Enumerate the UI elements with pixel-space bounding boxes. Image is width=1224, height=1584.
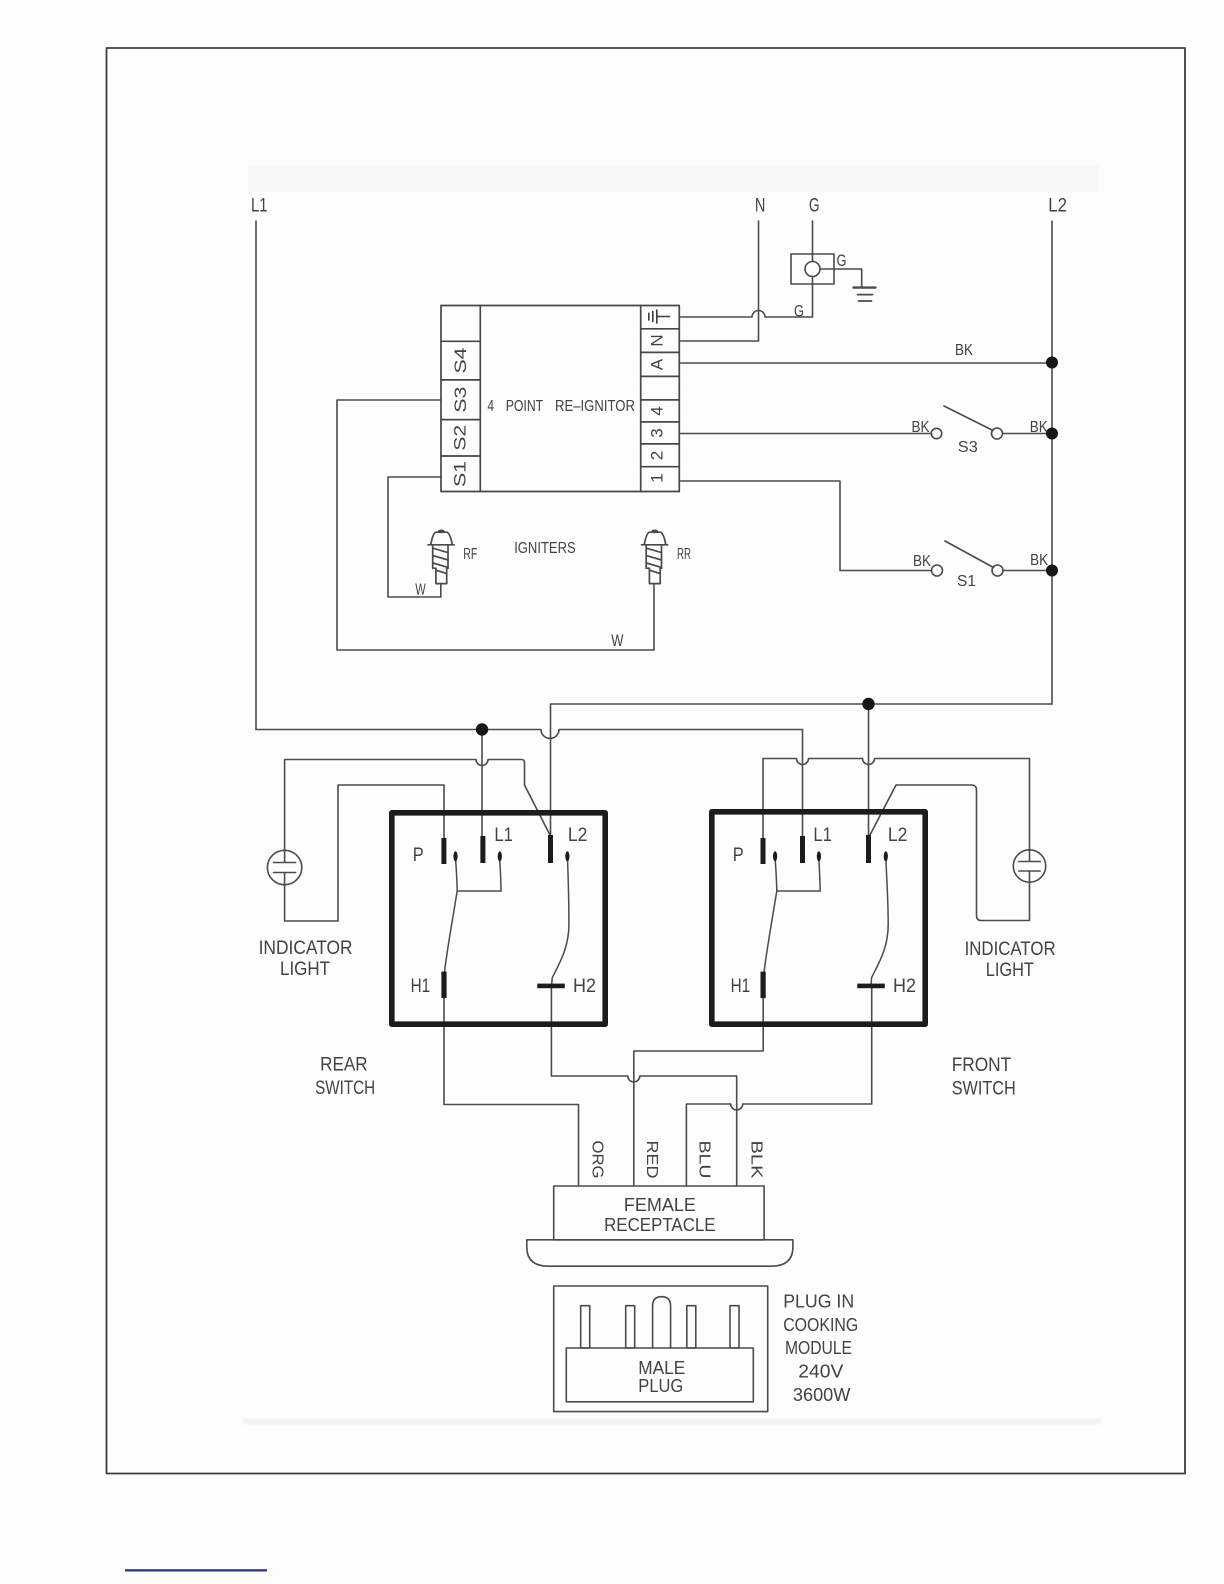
- switch S3: [931, 406, 1002, 439]
- svg-text:S1: S1: [451, 461, 470, 487]
- svg-text:4: 4: [488, 398, 495, 415]
- svg-text:POINT: POINT: [506, 398, 544, 415]
- svg-text:LIGHT: LIGHT: [986, 960, 1034, 981]
- igniter RR: [642, 530, 668, 584]
- svg-text:RECEPTACLE: RECEPTACLE: [604, 1215, 716, 1235]
- wire : re-ignitor terminal S1 to igniter RF, white wire W: [388, 477, 441, 597]
- svg-text:G: G: [809, 196, 820, 217]
- wire : front switch H2 output, hop over BLK wire, to receptacle BLU: [686, 988, 871, 1186]
- plug ground pin: [653, 1297, 671, 1348]
- svg-text:L1: L1: [813, 824, 832, 846]
- wire : re-ignitor terminal 3 to switch S3: [679, 433, 931, 435]
- svg-text:S1: S1: [957, 573, 976, 590]
- svg-text:REAR: REAR: [320, 1055, 368, 1076]
- rear terminal H2 bar: [537, 984, 565, 989]
- rear L1 contact point: [498, 851, 502, 861]
- footer link underline: [125, 1569, 267, 1571]
- svg-text:2: 2: [648, 451, 667, 460]
- svg-text:PLUG IN: PLUG IN: [783, 1292, 854, 1312]
- svg-text:H2: H2: [893, 975, 916, 997]
- pin ground symbol in terminal cell: [649, 310, 670, 323]
- svg-text:MODULE: MODULE: [785, 1338, 852, 1358]
- svg-text:P: P: [413, 844, 424, 866]
- junction dot : front L2 tap: [862, 698, 874, 710]
- wire : rear switch H1 output to receptacle ORG: [444, 998, 579, 1186]
- svg-text:L2: L2: [1048, 196, 1067, 217]
- svg-text:RE–IGNITOR: RE–IGNITOR: [555, 398, 635, 415]
- svg-text:RR: RR: [677, 546, 691, 563]
- wire : G box to earth ground: [820, 269, 862, 287]
- front L2 contact point: [884, 851, 888, 861]
- wire : left indicator light top lead, hop over rear L1 drop, to rear switch L2 terminal: [285, 760, 551, 851]
- front switch S20 : thick box: [712, 812, 925, 1024]
- svg-text:L2: L2: [888, 824, 908, 846]
- svg-text:INDICATOR: INDICATOR: [965, 939, 1056, 960]
- svg-text:BLU: BLU: [696, 1141, 713, 1179]
- re-ignitor U1 : 4 POINT RE-IGNITOR box: [441, 306, 679, 492]
- wire : L2 rail horizontal to rear switch L2 terminal: [551, 704, 1053, 836]
- connector J1 flange tray: [527, 1240, 793, 1266]
- wire : left indicator light bottom lead to rear switch P terminal: [285, 785, 444, 921]
- svg-text:H1: H1: [731, 975, 751, 997]
- lamp DS2 : right indicator light: [1013, 850, 1045, 882]
- wire : re-ignitor terminal 1 to switch S1: [679, 481, 931, 571]
- svg-text:INDICATOR: INDICATOR: [259, 938, 353, 959]
- rear L2 contact point: [565, 851, 569, 861]
- wire : switch S3 to L2 rail, BK: [1003, 433, 1053, 435]
- rear terminal L2 bar: [548, 835, 553, 863]
- svg-text:BK: BK: [955, 342, 973, 359]
- svg-text:FRONT: FRONT: [952, 1055, 1012, 1076]
- svg-text:BK: BK: [1030, 552, 1048, 569]
- svg-text:BLK: BLK: [748, 1141, 765, 1179]
- svg-text:FEMALE: FEMALE: [624, 1195, 696, 1215]
- svg-text:W: W: [415, 582, 426, 599]
- plug pin 1: [581, 1306, 590, 1348]
- svg-text:S4: S4: [451, 348, 470, 374]
- front terminal P bar: [761, 838, 766, 864]
- page border frame (decorative): [107, 48, 1186, 1474]
- rear terminal L1 bar: [480, 836, 485, 863]
- node L2 : supply rail L2 vertical wire: [1051, 221, 1053, 704]
- svg-text:3600W: 3600W: [793, 1385, 851, 1405]
- ground symbol: [854, 288, 876, 301]
- svg-text:G: G: [794, 302, 804, 321]
- svg-text:L2: L2: [568, 824, 588, 846]
- front L1 contact point: [817, 851, 821, 861]
- svg-text:SWITCH: SWITCH: [952, 1079, 1016, 1100]
- front terminal L1 bar: [800, 836, 805, 863]
- front switch internals: [764, 861, 888, 984]
- rear switch S10 : thick box: [392, 813, 605, 1024]
- svg-text:N: N: [755, 196, 766, 217]
- svg-text:P: P: [733, 844, 744, 866]
- wire : front switch L2 terminal drop from junction: [868, 704, 870, 836]
- svg-text:W: W: [611, 632, 624, 650]
- wire : L1 rail horizontal feed, hop over rear L2 drop, to front switch L1 terminal: [256, 730, 803, 837]
- svg-text:1: 1: [648, 473, 667, 482]
- svg-text:H2: H2: [573, 975, 596, 997]
- wire : front switch P terminal up and right, hops over front L1 and L2 drops, to right indicator light top lead: [763, 759, 1030, 851]
- svg-text:RF: RF: [463, 546, 477, 563]
- rear terminal P bar: [441, 838, 446, 864]
- svg-text:ORG: ORG: [589, 1141, 606, 1179]
- svg-text:4: 4: [648, 406, 667, 415]
- wire : re-ignitor terminal S3 to igniter RR, white wire W: [337, 400, 654, 650]
- svg-text:S2: S2: [451, 425, 470, 451]
- svg-text:S3: S3: [451, 387, 470, 413]
- switch S1: [932, 541, 1004, 576]
- svg-text:G: G: [837, 251, 847, 270]
- node N : neutral rail wire to re-ignitor terminal N: [679, 221, 758, 341]
- front terminal H1 bar: [761, 972, 766, 999]
- wire : switch S1 to L2 rail, BK: [1003, 570, 1052, 572]
- wire : re-ignitor ground terminal to G box, hop over N rail: [679, 277, 812, 318]
- plug pin 2: [626, 1306, 635, 1348]
- svg-text:RED: RED: [643, 1141, 660, 1179]
- svg-text:H1: H1: [411, 975, 431, 997]
- svg-text:L1: L1: [251, 196, 268, 217]
- connector P1 : male plug outer box: [554, 1286, 768, 1412]
- male plug body: [566, 1348, 753, 1402]
- svg-text:3: 3: [648, 428, 667, 437]
- junction dot : A wire on L2 rail: [1046, 357, 1058, 369]
- wire : front switch H1 output to receptacle RED: [634, 998, 763, 1186]
- svg-text:N: N: [648, 334, 667, 346]
- rear terminal H1 bar: [441, 972, 446, 999]
- junction dot : S1 wire on L2 rail: [1046, 565, 1058, 577]
- front P contact point: [773, 851, 777, 861]
- G box terminal: [791, 254, 834, 284]
- svg-text:240V: 240V: [798, 1362, 843, 1382]
- svg-text:S3: S3: [958, 439, 978, 456]
- plug pin 4: [687, 1306, 696, 1348]
- node G : ground lead wire from top to G box: [812, 221, 814, 262]
- rear switch internals : P contact: [445, 861, 569, 984]
- wire : rear switch H2 output, hop over RED wire, to receptacle BLK: [551, 988, 736, 1186]
- svg-text:L1: L1: [494, 824, 513, 846]
- svg-text:PLUG: PLUG: [638, 1376, 683, 1396]
- plug pin 5: [730, 1306, 739, 1348]
- wire : re-ignitor terminal A to L2 rail, BK: [679, 362, 1052, 364]
- svg-text:COOKING: COOKING: [783, 1315, 858, 1335]
- svg-text:BK: BK: [1030, 419, 1048, 436]
- svg-text:IGNITERS: IGNITERS: [514, 540, 576, 557]
- svg-text:BK: BK: [912, 419, 930, 436]
- svg-text:A: A: [648, 358, 667, 370]
- igniter RF: [428, 530, 454, 584]
- lamp DS1 : left indicator light: [267, 850, 301, 884]
- junction dot : rear L1 tap: [476, 723, 488, 735]
- front terminal L2 bar: [866, 835, 871, 863]
- svg-text:BK: BK: [913, 553, 931, 570]
- svg-text:LIGHT: LIGHT: [280, 959, 330, 980]
- junction dot : S3 wire on L2 rail: [1046, 428, 1058, 440]
- wire : right indicator light bottom lead to front switch L2 terminal: [870, 785, 1030, 921]
- rear P contact point: [453, 851, 457, 861]
- node L1 : supply rail L1 vertical wire: [255, 221, 257, 730]
- wire : rear switch L1 terminal drop from junction: [481, 730, 483, 837]
- connector J1 : female receptacle box: [554, 1186, 764, 1240]
- svg-text:SWITCH: SWITCH: [315, 1078, 375, 1099]
- front terminal H2 bar: [857, 984, 885, 989]
